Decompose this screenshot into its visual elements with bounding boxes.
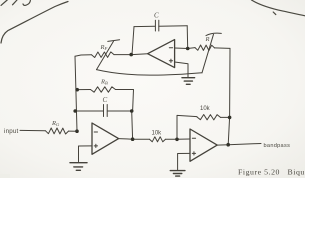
svg-text:C: C (103, 96, 108, 104)
svg-text:R: R (205, 36, 210, 43)
svg-text:RG: RG (51, 120, 60, 127)
svg-text:Figure 5.20 Biqu: Figure 5.20 Biqu (238, 168, 305, 177)
svg-text:input: input (4, 128, 18, 135)
svg-text:10k: 10k (200, 106, 211, 112)
svg-text:10k: 10k (152, 131, 163, 137)
svg-text:RF: RF (100, 44, 108, 51)
svg-text:C: C (154, 12, 159, 20)
svg-text:RB: RB (100, 79, 108, 86)
svg-text:bandpass: bandpass (264, 143, 291, 149)
